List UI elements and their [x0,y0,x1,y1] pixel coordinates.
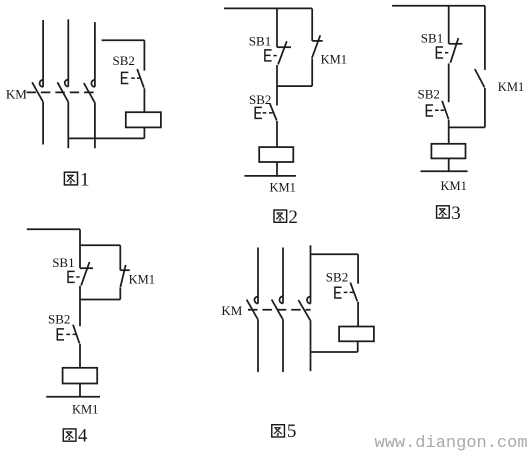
svg-text:KM: KM [6,87,27,102]
dashed mechanical link of contactor KM (fig1) [27,91,96,93]
contact KM pole 1 fixed terminal circle (fig5) [254,297,258,304]
contact KM1 fixed bar (fig2) [312,40,323,42]
wire phase line 2 upper (fig1) [67,19,69,86]
svg-text:SB2: SB2 [113,53,135,68]
button SB1 moving arm (fig2) [278,41,287,64]
wire phase line 1 lower (fig5) [257,319,259,372]
coil KM1 (fig4) [63,368,98,384]
pushbutton SB2 actuator E (fig2) [255,107,262,118]
wire phase line 3 lower (fig1) [94,102,96,148]
pushbutton SB2 actuator E (fig5) [335,287,342,298]
wire bottom return horizontal (fig5) [311,351,358,353]
wire main vertical lower (fig3) [448,120,450,144]
contact KM1 fixed bar (fig4) [120,269,130,271]
wire main vertical middle (fig4) [79,286,81,326]
wire branch top horizontal to SB2 (fig1) [102,39,145,41]
contact KM pole 3 moving arm (fig5) [298,300,310,320]
wire bottom return horizontal (fig1) [68,137,144,139]
svg-text:1: 1 [80,169,90,190]
svg-text:KM: KM [221,303,242,318]
wire main vertical upper (fig3) [448,6,450,44]
svg-text:KM1: KM1 [129,272,155,286]
wire bottom rail (fig4) [46,396,100,398]
caption TU 2 (fig2) [274,210,287,222]
svg-text:2: 2 [288,207,298,228]
pushbutton SB2 link dashes (fig1) [131,77,140,79]
contact KM pole 1 moving arm (fig1) [32,82,43,101]
wire self-hold branch vertical (fig3) [484,6,486,70]
pushbutton SB2 actuator E (fig4) [57,329,64,340]
contact KM pole 2 fixed terminal circle (fig5) [279,296,283,303]
contact KM pole 3 fixed terminal circle (fig5) [307,297,311,304]
caption TU 5 (fig5) [272,425,285,437]
pushbutton SB2 moving arm (fig2) [270,104,277,121]
wire main vertical middle (fig3) [448,63,450,102]
button SB1 fixed bar (fig4) [80,267,93,269]
wire phase line 2 lower (fig5) [282,319,284,372]
pushbutton SB1 link dash (fig2) [273,55,276,57]
contact KM1 moving arm (fig2) [312,35,320,58]
pushbutton SB2 link dashes (fig5) [344,291,354,293]
svg-text:SB1: SB1 [52,255,74,270]
pushbutton SB1 actuator E (fig4) [68,271,75,282]
wire phase line 3 upper (fig5) [310,245,312,303]
wire top rail (fig4) [27,228,80,230]
svg-text:SB1: SB1 [421,31,443,46]
svg-text:SB2: SB2 [418,86,440,101]
svg-text:KM1: KM1 [321,52,347,66]
dashed mechanical link of contactor KM (fig5) [248,309,311,311]
wire bottom rail (fig3) [421,170,468,172]
pushbutton SB1 link dash (fig3) [445,52,448,54]
button SB1 moving arm (fig3) [450,38,458,63]
pushbutton SB2 link dashes (fig4) [66,333,76,335]
button SB1 moving arm (fig4) [81,262,89,286]
wire branch vertical lower to coil (fig5) [357,302,359,327]
pushbutton SB2 moving arm (fig1) [137,69,144,88]
wire branch vertical lower to coil (fig1) [143,88,145,112]
wire coil bottom (fig3) [448,158,450,172]
wire self-hold branch vertical upper (fig4) [119,245,121,270]
wire junction horizontal (fig2) [277,85,312,87]
contact KM pole 2 fixed terminal circle (fig1) [65,80,69,87]
wire top rail (fig2) [224,7,312,9]
contact KM pole 1 fixed terminal circle (fig1) [40,80,44,87]
wire junction horizontal (fig3) [449,126,485,128]
wire top rail (fig3) [392,5,485,7]
wire bottom rail (fig2) [244,175,296,177]
caption TU 1 (fig1) [64,172,77,185]
contact KM pole 3 fixed terminal circle (fig1) [91,80,95,87]
wire main vertical upper (fig4) [79,229,81,268]
svg-text:SB1: SB1 [249,34,271,49]
pushbutton SB2 link dashes (fig2) [263,112,273,114]
wire phase line 2 upper (fig5) [282,248,284,304]
contact KM1 moving arm (fig3) [475,69,485,88]
contact KM1 moving arm (fig4) [120,265,125,287]
svg-text:KM1: KM1 [498,80,524,94]
wire phase line 1 upper (fig5) [257,248,259,304]
svg-text:www.diangon.com: www.diangon.com [375,434,528,453]
pushbutton SB2 actuator E (fig1) [122,72,129,83]
coil KM1 (fig2) [259,147,293,162]
wire to coil (fig4) [79,344,81,368]
wire self-hold branch vertical (fig2) [311,8,313,41]
wire phase line 3 upper (fig1) [94,22,96,87]
wire junction horizontal (fig4) [80,299,120,301]
wire branch vertical upper (fig1) [143,40,145,70]
wire coil bottom (fig4) [79,384,81,398]
wire phase line 1 upper (fig1) [42,20,44,87]
wire branch vertical upper (fig5) [357,254,359,283]
pushbutton SB1 actuator E (fig3) [436,47,443,58]
contact KM pole 2 moving arm (fig1) [57,82,68,101]
wire phase line 1 lower (fig1) [42,102,44,145]
coil KM (fig5) [339,327,374,342]
svg-text:SB2: SB2 [326,270,348,285]
wire main vertical upper (fig2) [276,8,278,47]
wire coil bottom (fig5) [357,341,359,352]
contact KM pole 3 moving arm (fig1) [84,83,95,102]
wire self-hold branch lower (fig2) [311,59,313,87]
wire self-hold branch top horizontal (fig4) [80,244,120,246]
pushbutton SB2 moving arm (fig3) [442,101,448,119]
wire to coil (fig2) [276,121,278,147]
wire branch top horizontal to SB2 (fig5) [311,253,359,255]
svg-text:KM1: KM1 [72,403,98,417]
contact KM pole 2 moving arm (fig5) [272,300,283,320]
wire self-hold branch lower (fig3) [484,88,486,127]
wire coil bottom (fig1) [143,127,145,138]
caption TU 3 (fig3) [437,206,450,218]
wire self-hold branch vertical lower (fig4) [119,287,121,299]
wire phase line 3 lower (fig5) [310,320,312,371]
button SB1 fixed bar (fig2) [277,46,291,48]
svg-text:4: 4 [78,426,88,447]
svg-text:5: 5 [287,421,297,442]
wire main vertical middle (fig2) [276,65,278,105]
coil KM (fig1) [126,112,161,127]
pushbutton SB1 actuator E (fig2) [265,50,272,61]
pushbutton SB2 actuator E (fig3) [426,105,433,116]
pushbutton SB2 moving arm (fig4) [73,325,80,344]
svg-text:3: 3 [451,203,461,224]
svg-text:KM1: KM1 [270,180,296,194]
svg-text:SB2: SB2 [249,92,271,107]
pushbutton SB2 link dashes (fig3) [435,109,444,111]
svg-text:KM1: KM1 [441,179,467,193]
svg-text:SB2: SB2 [48,312,70,327]
pushbutton SB1 link dash (fig4) [76,276,79,278]
pushbutton SB2 moving arm (fig5) [350,283,357,302]
contact KM pole 1 moving arm (fig5) [247,300,258,320]
coil KM1 (fig3) [431,144,465,159]
wire phase line 2 lower (fig1) [67,102,69,149]
button SB1 fixed bar (fig3) [449,43,463,45]
wire coil bottom (fig2) [276,162,278,177]
caption TU 4 (fig4) [63,429,76,441]
